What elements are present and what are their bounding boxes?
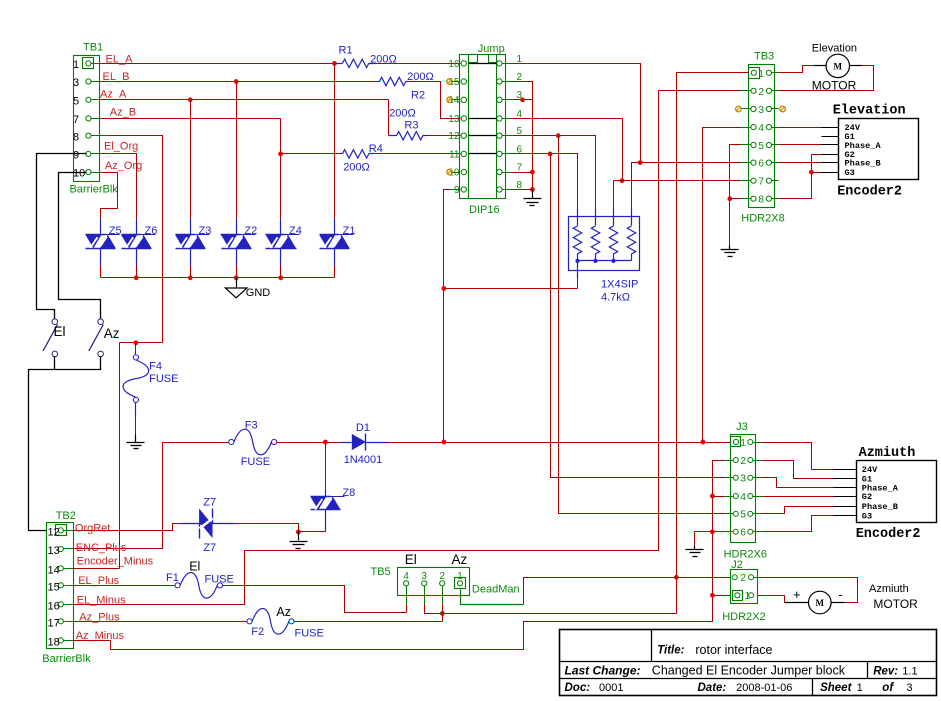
label TB5 [371,566,391,578]
Jump pin 11 number [449,149,460,160]
jumper link inside DIP [469,153,497,155]
J3 pin 3 left [733,475,738,480]
no-connect marker Jump pin 10 [447,169,460,175]
connector J3 outline [731,435,756,543]
svg-text:F3: F3 [245,420,258,432]
net label El_Org [104,141,138,153]
wire TB2.12 OrgRet to Z7 [74,524,181,531]
svg-text:HDR2X2: HDR2X2 [722,611,765,623]
label HDR2X6 [724,549,767,561]
wire R4 to Jump pin11 [375,153,461,155]
wire TB1.9 black to El switch [37,154,87,319]
svg-text:D1: D1 [356,422,370,434]
label Z3 [199,225,212,237]
TB3 pin 3 stub right [772,108,779,110]
wire Jump.6 branch to J3.3 [551,154,725,478]
svg-text:OrgRet: OrgRet [75,523,110,535]
wire Jump.1 to TB3.6 net [513,64,641,163]
junction Az_A/Z3 [188,97,193,102]
J3 pin 2 stub left [725,460,734,462]
J3 pin 2 number [740,456,746,467]
label Sheet [820,682,852,694]
label J2 [731,559,743,571]
TB1 pin 1 [83,58,94,69]
switch Az [89,319,104,357]
label Rev: [873,665,898,677]
svg-text:12: 12 [48,526,60,538]
text 0001 [599,682,623,694]
label R2 [411,89,425,101]
svg-text:16: 16 [448,59,460,70]
motor M2 (Azmiuth) [809,591,832,614]
label - (motor) [838,587,842,602]
svg-text:F4: F4 [149,361,162,373]
Jump pin 5 stub [503,135,513,137]
label Z1 [343,225,356,237]
TB3 pin 2 right [766,88,771,93]
svg-text:M: M [816,598,825,608]
J3 pin 1 right [748,440,753,445]
svg-text:Changed El Encoder Jumper bloc: Changed El Encoder Jumper block [652,664,846,678]
SIP resistor 4 [627,209,635,261]
svg-text:4.7kΩ: 4.7kΩ [601,292,630,304]
svg-text:Az: Az [276,605,291,619]
Z5 bottom lead [100,249,102,278]
TB5 pin 3 number [421,571,427,582]
net label Az_Plus [79,611,120,623]
fuse F4 [123,355,149,403]
TB2 pin 15 stub [64,585,74,587]
label TB2 [56,510,76,522]
TB3 pin 3 stub left [741,108,751,110]
J3 pin 6 stub left [725,531,734,533]
J3 pin 1 stub right [753,442,763,444]
svg-text:Last Change:: Last Change: [565,663,641,677]
wire to TB3 pin6 [641,162,741,164]
J3 pin 2 left [733,458,738,463]
svg-text:R3: R3 [404,120,418,132]
svg-text:Az_B: Az_B [110,107,136,119]
Z8 label leader [331,496,345,498]
connector Jump (DIP16) outline [460,55,506,199]
wire branch to SIP R3 [613,181,615,209]
wire TB3.4 to encoder 24V [779,127,822,129]
svg-text:6: 6 [758,159,764,170]
Z3 top lead [190,219,192,235]
Jump pin 16 number [448,59,460,70]
svg-text:2: 2 [439,571,445,582]
net label Encoder_Minus [77,556,154,568]
encoder pin stub 24V [822,127,839,129]
TB3 pin 5 left [751,142,756,147]
Jump pin 13 number [448,114,460,125]
svg-text:18: 18 [48,636,60,648]
TB2 pin 16 stub [64,604,74,606]
label MOTOR (azmiuth) [873,597,918,611]
junction EL_B/Z2 [234,79,239,84]
no-connect TB3.3 left [736,106,742,112]
encoder2 label G1 [862,474,872,484]
wire Az_B TB1.7 right [101,118,281,120]
svg-text:200Ω: 200Ω [389,108,416,120]
svg-text:3: 3 [906,682,912,694]
junction Jump1/TB3.6/SIP-R4 [638,160,643,165]
resistor R3 [389,132,427,140]
wire Az_Org TB1.10 to Z5 [101,173,118,219]
J3 pin 3 right [748,475,753,480]
label F3 FUSE [241,456,270,468]
TB5 pin 4 stub [406,586,408,604]
J3 pin 4 right [748,494,753,499]
junction SIP common [611,259,615,263]
svg-text:FUSE: FUSE [149,373,178,385]
J3 pin 3 stub right [753,477,763,479]
wire Z8 bottom [299,510,326,532]
svg-text:El: El [54,324,66,339]
Z4 top lead [280,219,282,235]
zener diode Z7 [199,509,213,539]
svg-text:Z6: Z6 [145,225,158,237]
svg-text:Phase_B: Phase_B [845,158,881,168]
SIP resistor 1 [573,209,581,261]
label Azmiuth (motor) [869,583,909,595]
svg-text:7: 7 [517,162,523,173]
svg-text:1: 1 [857,682,863,694]
svg-text:3: 3 [740,474,746,485]
junction Jump.6 branch [548,152,553,157]
encoder label 24V [845,123,861,133]
TB3 pin 8 stub left [741,198,751,200]
Z4 bottom lead [280,249,282,278]
svg-text:M: M [834,61,843,71]
J3 pin 6 left [733,529,738,534]
Jump pin 7 stub [503,172,513,174]
TB3 pin 4 number [758,123,764,134]
encoder pin stub Phase_A [822,144,839,146]
svg-text:Elevation: Elevation [833,104,906,119]
svg-text:5: 5 [758,141,764,152]
junction Jump.7 [530,170,535,175]
zener diode Z4 [266,235,297,249]
TB2 pin 18 [58,638,63,643]
label of [882,682,894,694]
resistor network 1X4SIP box [569,217,640,271]
jumper link inside DIP [469,118,497,120]
label J3 [736,421,748,433]
fuse F3 [229,429,277,455]
TB3 pin 3 right [766,106,771,111]
TB3 pin 7 left [751,178,756,183]
TB3 pin 6 left [751,160,756,165]
label Doc: [565,682,591,694]
label El (TB5) [405,552,417,567]
TB3 pin 8 right [766,196,771,201]
zener diode Z8 [310,497,340,510]
wire TB2.15 to F1 [74,585,175,587]
label DIP16 [469,204,500,216]
svg-text:Z1: Z1 [343,225,356,237]
motor M2 lead right [832,602,845,604]
svg-text:TB3: TB3 [754,51,774,63]
svg-text:R1: R1 [339,44,353,56]
TB2 pin 18 stub [64,640,74,642]
wire TB3.8 to encoder G2 [779,155,822,199]
label Az (F2) [276,605,291,619]
J3 pin 4 stub left [725,496,734,498]
Z1 bottom lead [334,249,336,278]
text 2008-01-06 [736,682,792,694]
junction SIP common [575,259,579,263]
label Last Change: [565,663,641,677]
Z2 label leader [241,234,256,236]
SIP common bus [578,260,632,262]
junction bus/Z3 [188,275,193,280]
svg-text:HDR2X6: HDR2X6 [724,549,767,561]
ground below Z8 [290,532,308,549]
Jump pin 5 number [517,126,523,137]
TB1 pin 7 stub [91,118,101,120]
svg-text:2: 2 [740,573,746,584]
svg-text:Date:: Date: [698,682,727,694]
TB1 pin 5 number [73,95,79,107]
junction SIP common [593,259,597,263]
no-connect TB3.3 right [780,106,786,112]
J3 pin 4 left [733,494,738,499]
svg-text:3: 3 [421,571,427,582]
wire TB2.18 Az_Minus [74,596,713,650]
TB3 pin 1 stub right [772,72,779,74]
TB3 pin 2 stub right [772,90,779,92]
junction TB3.4 / D1 line (J3.1) [701,440,706,445]
Jump pin 8 number [517,180,523,191]
TB3 pin 2 left [751,88,756,93]
svg-text:TB1: TB1 [83,42,103,54]
TB2 pin 13 stub [64,548,74,550]
SIP common lead down [577,261,579,289]
wire TB5.3 to J2.2 net [425,604,677,614]
junction TB3.1 net / J2.2 wire [674,575,679,580]
wire J3.4 link [713,496,725,498]
TB1 pin 5 stub [91,99,101,101]
label R3 [404,120,418,132]
TB1 pin 8 number [73,131,79,143]
Jump pin 15 number [448,77,460,88]
connector TB5 outline [398,568,470,596]
wire J2.1 to motor [758,596,785,603]
svg-text:10: 10 [73,168,85,180]
svg-text:7: 7 [758,177,764,188]
junction Jump.3 artifact [520,97,525,102]
zener diode Z2 [221,235,252,249]
J3 pin 5 left [733,511,738,516]
label El (F1) [189,560,200,574]
TB3 pin 4 right [766,125,771,130]
TB3 pin 2 number [758,87,764,98]
TB3 pin 5 number [758,141,764,152]
svg-text:2: 2 [740,456,746,467]
wire El_Org TB1.9 to Z6 [101,154,137,219]
wire F2 to TB5.2 [295,621,443,623]
J3 pin 1 number [740,438,746,449]
TB2 pin 17 stub [64,621,74,623]
TB1 pin 3 [86,79,91,84]
J3 pin 3 number [740,474,746,485]
wire J3.3 to Phase_A [763,478,834,488]
junction G3 branch [809,170,814,175]
svg-text:DeadMan: DeadMan [472,583,520,595]
J2 pin 2 stub right [754,577,765,579]
label HDR2X8 [741,213,784,225]
svg-text:1N4001: 1N4001 [344,454,383,466]
encoder2 label Phase_A [862,484,899,494]
wire Az switch bottom [55,357,101,370]
svg-text:11: 11 [449,149,460,160]
net label Az_Minus [76,630,125,642]
svg-text:15: 15 [48,581,60,593]
wire F4 bottom [135,403,137,435]
Jump pin 14 [461,97,466,102]
title block frame [560,630,937,696]
svg-text:TB5: TB5 [371,566,391,578]
label F3 [245,420,258,432]
Jump pin 1 number [517,54,523,65]
TB1 pin 9 [86,151,91,156]
TB3 pin 5 right [766,142,771,147]
wire Jump.6 to SIP R1 [513,154,578,209]
text Changed El Encoder Jumper block [652,664,846,678]
TB3 pin 8 number [758,195,764,206]
Jump pin 16 [461,61,466,66]
wire J3.1 to 24V [763,443,834,470]
junction Z8/Z7 ground [296,530,301,535]
svg-text:1: 1 [740,438,746,449]
svg-text:16: 16 [48,600,60,612]
Z6 bottom lead [136,249,138,278]
TB2 pin 18 number [48,636,60,648]
TB5 pin 2 number [439,571,445,582]
TB2 pin 17 number [48,617,60,629]
connector TB1 (BarrierBlk) [74,56,100,182]
svg-text:Elevation: Elevation [812,42,857,54]
svg-text:ENC_Plus: ENC_Plus [76,542,127,554]
svg-text:8: 8 [73,131,79,143]
encoder2 pin stub G2 [834,496,857,498]
label F4 [149,361,162,373]
Jump pin 8 stub [503,189,513,191]
TB5 pin 1 [455,578,466,589]
wire TB3.8 left [730,198,741,200]
Z1 label leader [339,234,354,236]
J2 pin 1 [733,591,743,601]
TB5 pin 3 [422,581,427,586]
ground symbol GND (triangle) [225,278,247,298]
TB3 pin 1 number [758,69,764,80]
wire EL_B down to Z2 [236,82,238,219]
Z2 top lead [236,219,238,235]
svg-text:BarrierBlk: BarrierBlk [42,653,91,665]
wire J3.6 to ground [695,532,713,546]
wire EL_A down to Z1 [334,64,336,219]
encoder box Elevation [839,119,919,180]
net label ENC_Plus [76,542,127,554]
Jump pin 12 [461,133,466,138]
junction Jump4/TB3.7/SIP-R3 [620,178,625,183]
TB3 pin 4 left [751,125,756,130]
encoder label G2 [845,150,855,160]
wire TB3.5+8 to ground [729,199,731,246]
encoder2 label Phase_B [862,502,898,512]
resistor R4 [340,150,375,158]
label TB1 [83,42,103,54]
TB2 pin 12 stub [64,530,74,532]
wire J3.4 to G2 [763,496,834,498]
label F2 [251,626,264,638]
wire R2 to Jump pin13 [409,82,461,119]
svg-text:FUSE: FUSE [205,573,234,585]
J2 pin 1 right [749,593,754,598]
svg-text:F2: F2 [251,626,264,638]
svg-text:Az: Az [104,326,120,341]
TB2 pin 17 [58,619,63,624]
wire branch to encoder G3 [812,172,822,174]
svg-text:7: 7 [73,114,79,126]
TB1 pin 10 stub [91,172,101,174]
TB3 pin 8 left [751,196,756,201]
wire F3 to D1 [277,442,341,444]
TB3 pin 8 stub right [772,198,779,200]
Jump pin 6 number [517,144,523,155]
svg-text:TB2: TB2 [56,510,76,522]
wire Jump.2 down to ground [513,82,533,190]
label BarrierBlk [70,184,119,196]
label Encoder2 (azmiuth) [856,527,921,542]
wire zener ground bus [101,277,335,279]
J3 pin 5 stub right [753,513,763,515]
TB1 pin 10 number [73,168,85,180]
svg-text:El_Org: El_Org [104,141,138,153]
label BarrierBlk (TB2) [42,653,91,665]
jumper link inside DIP [469,135,497,137]
net label Az_A [100,89,127,101]
wire TB2.16 EL_Minus to TB3.2 [74,91,659,605]
svg-text:200Ω: 200Ω [343,162,370,174]
label R4 [369,143,383,155]
svg-text:Z2: Z2 [244,225,257,237]
wire Z7 to ground node [236,524,299,532]
svg-text:0001: 0001 [599,682,623,694]
wire TB3.4 left down [703,128,741,443]
TB5 pin 4 number [403,571,409,582]
J3 pin 5 stub left [725,513,734,515]
connector TB3 outline [749,65,775,208]
J2 pin 2 number [740,573,746,584]
TB2 pin 14 [58,566,63,571]
J3 pin 5 number [740,510,746,521]
svg-text:Sheet: Sheet [820,682,852,694]
TB1 pin 5 [86,97,91,102]
svg-text:FUSE: FUSE [241,456,270,468]
label HDR2X2 [722,611,765,623]
wire Jump.9 to D1 net [444,190,461,443]
svg-text:G2: G2 [862,492,872,502]
title block row line 1 [560,661,937,663]
junction SIP common/D1 riser [442,286,447,291]
label + (motor) [793,587,801,602]
label Z6 [145,225,158,237]
wire Jump.5 branch to J3.5 [559,136,725,514]
SIP resistor 2 [591,209,599,261]
encoder label Phase_B [845,158,881,168]
